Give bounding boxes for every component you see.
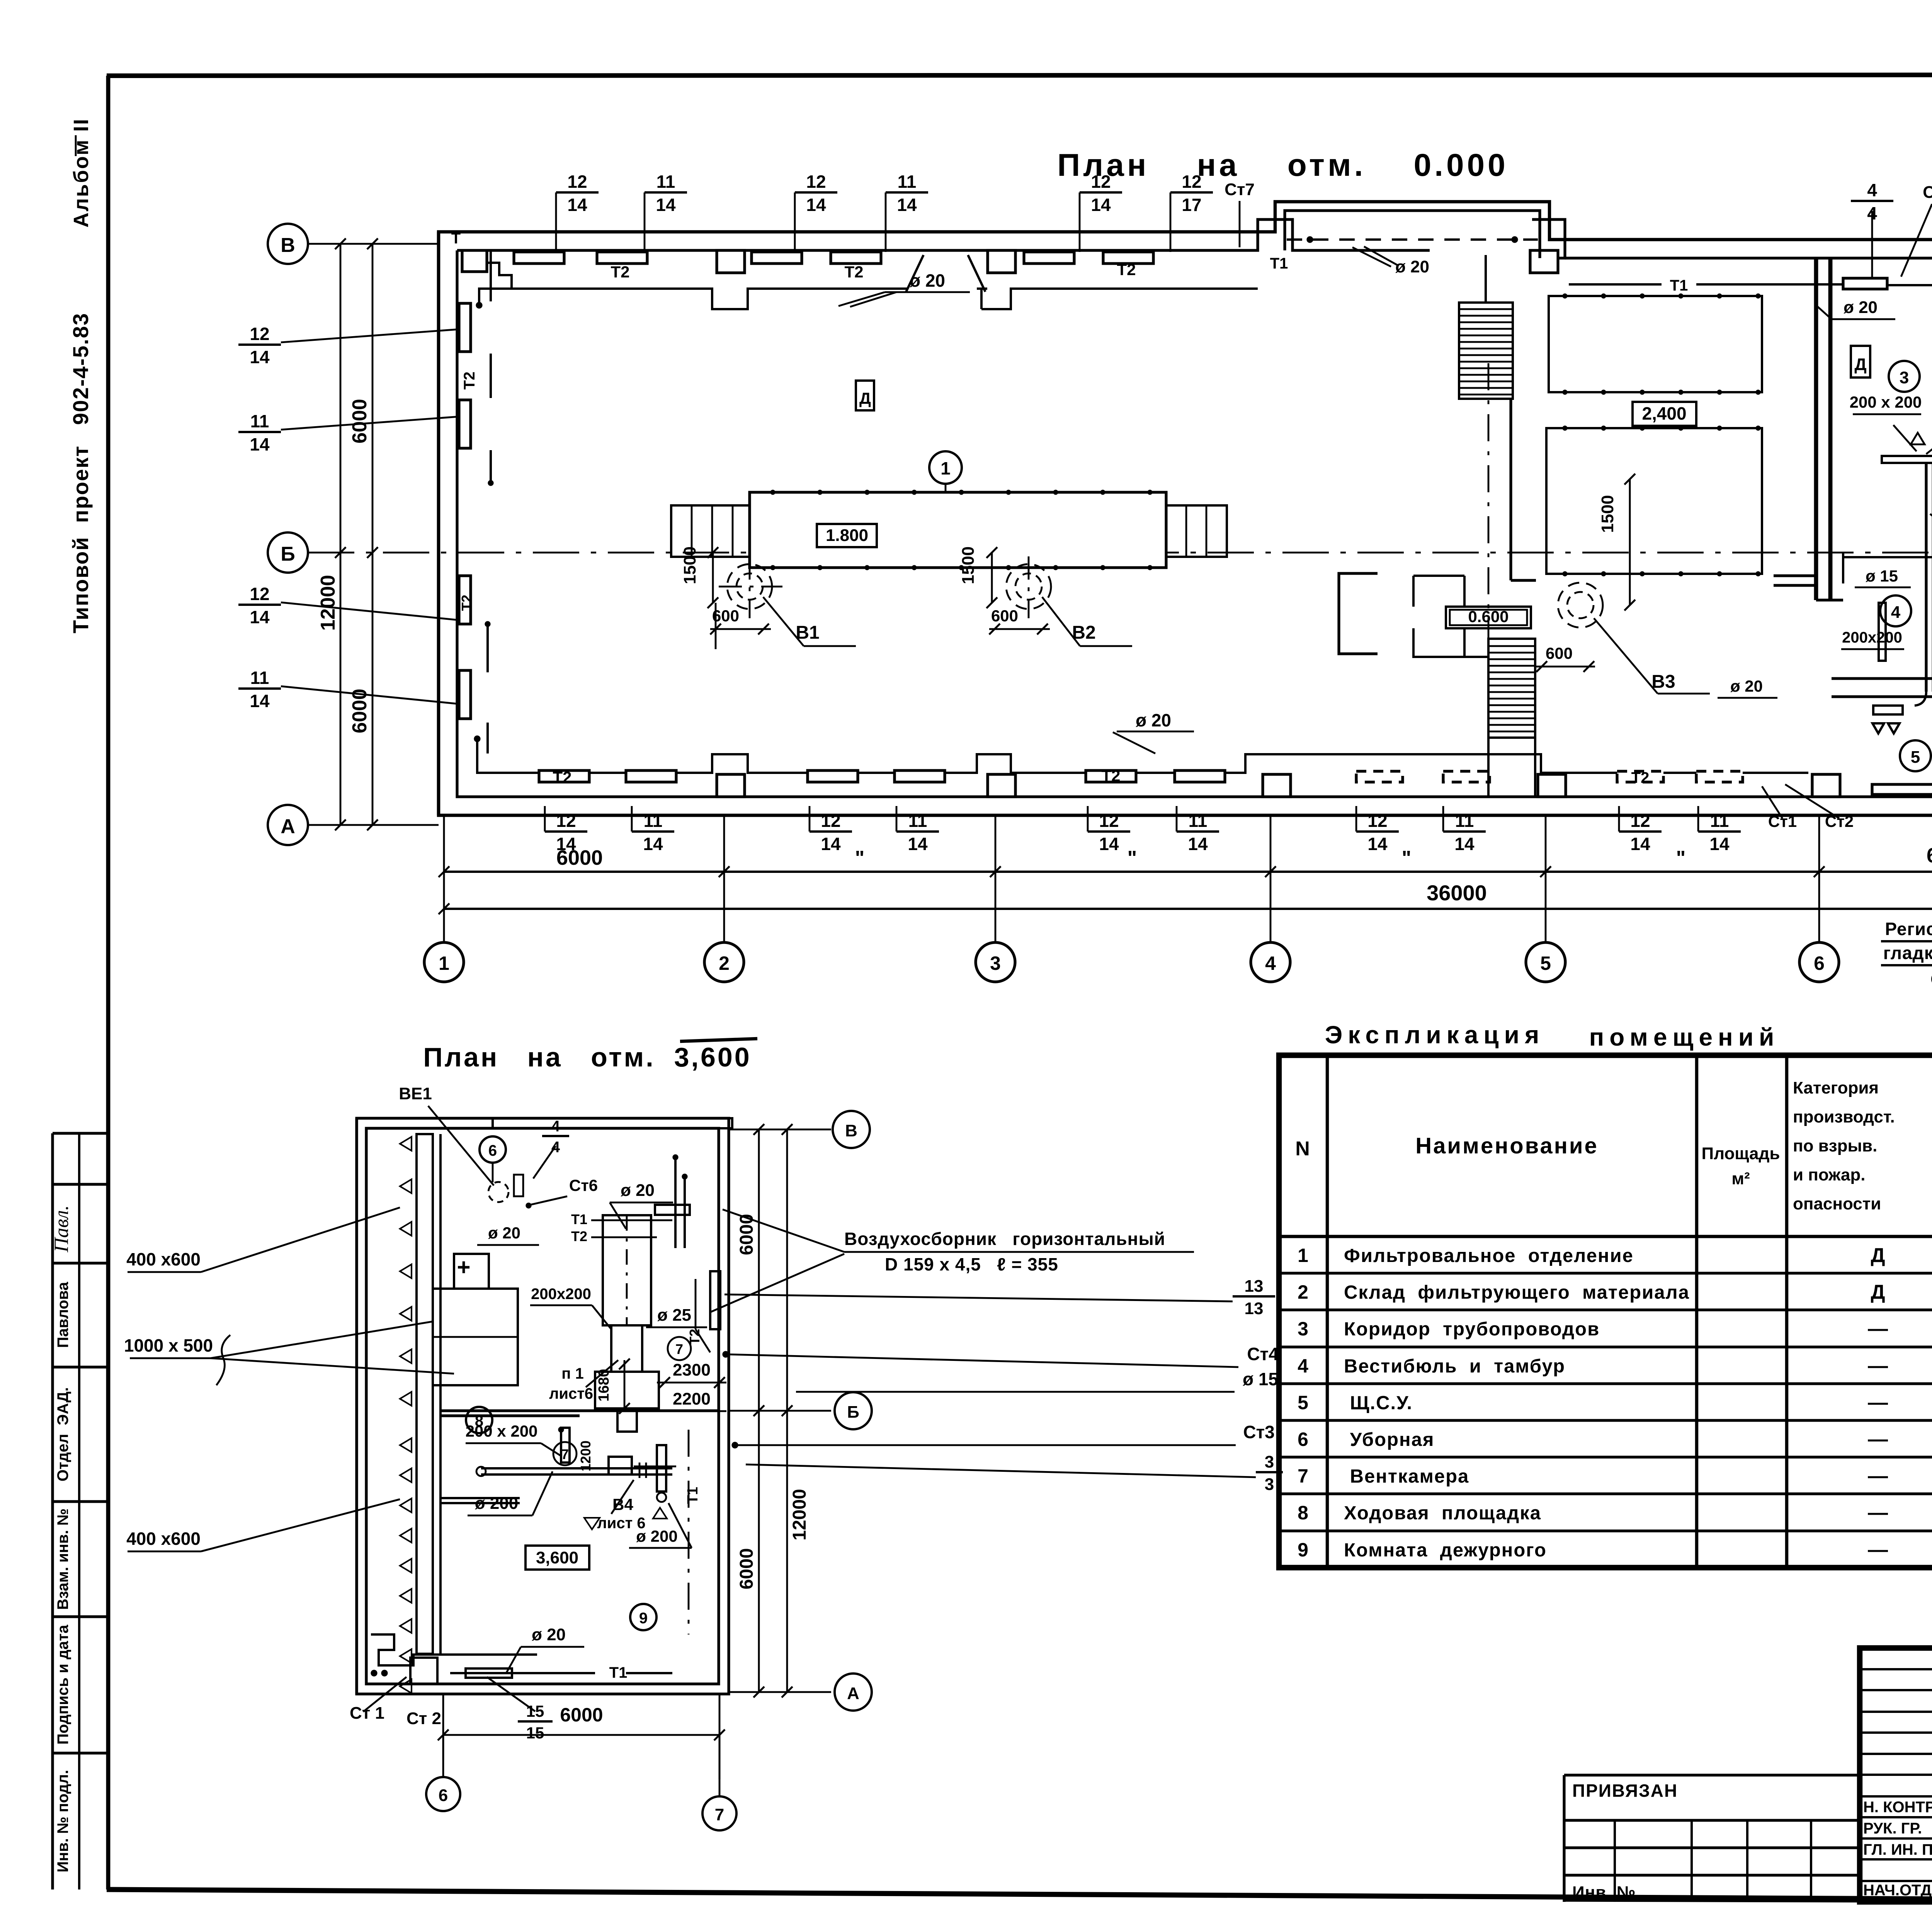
grid leaders right [729,1129,831,1131]
svg-text:—: — [1868,1355,1888,1377]
svg-text:": " [855,847,865,869]
svg-text:11: 11 [1189,811,1207,831]
wall pilasters [717,250,745,273]
svg-text:Подпись и дата: Подпись и дата [54,1624,71,1745]
svg-text:N: N [1295,1138,1311,1160]
svg-text:14: 14 [1709,834,1730,854]
dimension line 36000 [444,908,1932,910]
svg-text:Категория: Категория [1793,1078,1879,1097]
svg-text:Т2: Т2 [459,595,474,611]
svg-text:ГЛ. ИН. ПР.: ГЛ. ИН. ПР. [1863,1841,1932,1858]
svg-text:по взрыв.: по взрыв. [1793,1136,1877,1155]
corridor wall vertical [1509,399,1512,580]
svg-text:6000: 6000 [736,1548,757,1590]
circled 8 and duct [466,1407,492,1433]
svg-text:В: В [845,1121,857,1140]
duct pipes x4990 [1925,463,1927,692]
radiator top small plan [655,1205,690,1215]
corner niche [462,250,487,272]
svg-text:3: 3 [1298,1318,1308,1340]
svg-text:12: 12 [1630,811,1650,831]
svg-text:6000: 6000 [556,846,603,869]
svg-text:3: 3 [990,952,1001,974]
svg-text:лист6: лист6 [549,1385,593,1402]
svg-text:Ст2: Ст2 [1825,812,1854,830]
svg-text:п 1: п 1 [561,1365,584,1382]
svg-text:11: 11 [644,811,663,831]
grid circles B,Bmid,A small plan [833,1111,870,1148]
svg-text:200 х 200: 200 х 200 [466,1422,538,1440]
svg-text:Б: Б [281,543,295,565]
label 1.800 [817,524,877,547]
label 2.400 [1633,402,1696,426]
svg-text:ø 20: ø 20 [1844,298,1878,317]
svg-text:Т1: Т1 [571,1211,587,1227]
svg-text:Т1: Т1 [1270,255,1288,272]
svg-text:Т1: Т1 [1670,277,1688,294]
svg-text:13: 13 [1245,1277,1264,1296]
svg-text:5: 5 [1911,748,1920,767]
svg-text:200х200: 200х200 [531,1286,591,1303]
svg-text:—: — [1868,1465,1888,1487]
svg-text:2: 2 [719,952,730,974]
svg-text:13: 13 [1245,1299,1264,1318]
svg-text:Т2: Т2 [1101,767,1120,785]
svg-text:12: 12 [1099,811,1119,831]
vertical dimension lines left [340,244,342,825]
svg-text:200 х 200: 200 х 200 [1850,393,1922,411]
svg-text:Т2: Т2 [611,263,629,281]
left duct shaft [417,1134,433,1654]
top bay walls [1275,202,1549,232]
svg-text:производст.: производст. [1793,1107,1895,1126]
svg-text:Типовой проект 902-4-5.83: Типовой проект 902-4-5.83 [68,313,93,633]
grid line B(mid) row [308,552,1932,554]
svg-text:6000: 6000 [560,1704,603,1726]
svg-text:7: 7 [1298,1465,1308,1487]
exterior walls inner line [457,219,1430,250]
svg-text:и пожар.: и пожар. [1793,1165,1865,1184]
heating pipe T1 right top [1569,284,1932,285]
svg-text:9: 9 [639,1610,648,1627]
centerline through stair [1488,363,1490,641]
svg-text:": " [1128,847,1137,869]
circled 7 lower [553,1442,577,1465]
svg-text:6000: 6000 [1927,844,1932,867]
vent pipe vertical [1879,603,1886,661]
radiators top [514,252,564,264]
grid circle B [268,224,308,264]
svg-text:ВЕ1: ВЕ1 [399,1084,432,1103]
svg-text:ø 20: ø 20 [1136,710,1171,730]
column circles 1-7 [424,942,464,982]
top interior: VE1 etc [488,1182,509,1202]
T2 pipe room4 [1843,553,1932,583]
svg-text:В4: В4 [612,1495,633,1514]
svg-text:4: 4 [1265,952,1276,974]
svg-text:В3: В3 [1651,672,1675,692]
table frame [1279,1055,1932,1568]
svg-text:14: 14 [897,195,917,215]
svg-text:Фильтровальное отделение: Фильтровальное отделение [1344,1245,1634,1266]
svg-text:14: 14 [1188,834,1208,854]
svg-text:12: 12 [806,172,826,192]
svg-text:12: 12 [567,172,587,192]
svg-text:ø 20: ø 20 [1395,257,1429,276]
svg-text:Наименование: Наименование [1415,1133,1599,1158]
svg-text:м²: м² [1731,1169,1750,1188]
svg-text:Т2: Т2 [571,1228,587,1244]
svg-text:Инв. №: Инв. № [1572,1883,1636,1902]
grid circle A [268,805,308,845]
svg-text:ø 20: ø 20 [621,1181,655,1200]
horizontal pipe 200 [481,1468,672,1475]
svg-text:6: 6 [488,1142,497,1159]
svg-text:Ст 2: Ст 2 [406,1709,441,1728]
svg-text:2300: 2300 [673,1361,711,1379]
svg-text:12: 12 [250,584,269,604]
svg-text:14: 14 [908,834,928,854]
svg-text:Ст4: Ст4 [1247,1344,1279,1364]
svg-text:4: 4 [1891,603,1901,622]
svg-text:12: 12 [1091,172,1111,192]
svg-text:А: А [847,1684,859,1703]
bottom-left corner pipes small plan [371,1634,537,1665]
svg-text:Инв. № подл.: Инв. № подл. [54,1770,71,1872]
svg-text:Взам. инв. №: Взам. инв. № [54,1509,71,1610]
svg-text:12: 12 [1182,172,1201,192]
svg-text:200х200: 200х200 [1842,629,1902,646]
svg-text:Павл.: Павл. [51,1205,73,1253]
svg-text:12000: 12000 [789,1489,810,1540]
heating pipe T2 top [479,289,1258,309]
room5 low duct [1872,784,1932,794]
exterior walls outline [439,202,1932,815]
svg-text:12: 12 [556,811,576,831]
duct elbow [1882,456,1932,463]
svg-text:А: А [281,815,295,838]
svg-text:11: 11 [1455,811,1474,831]
svg-text:400 х600: 400 х600 [126,1529,201,1549]
svg-text:—: — [1868,1318,1888,1340]
svg-text:Венткамера: Венткамера [1344,1466,1469,1487]
svg-text:1: 1 [940,458,951,478]
right risers small plan top [674,1155,677,1248]
central duct assembly [603,1215,651,1325]
svg-text:Т2: Т2 [461,372,478,390]
svg-text:ø 20: ø 20 [1730,677,1763,695]
svg-text:1500: 1500 [959,546,978,584]
svg-text:Ст6: Ст6 [569,1176,598,1194]
insulation triangles left wall [400,1137,412,1151]
vertical dims right of small plan [758,1129,760,1692]
svg-text:14: 14 [643,834,663,854]
svg-text:Т2: Т2 [1117,260,1136,279]
svg-text:3: 3 [1265,1475,1274,1494]
svg-text:ø 20: ø 20 [910,270,945,291]
svg-text:6000: 6000 [349,399,371,444]
small triangles duct marks [1911,433,1932,457]
equipment rect lower [1546,428,1762,574]
equipment filter 1 [750,492,1166,568]
stair side rails [1412,576,1415,607]
svg-text:7: 7 [561,1446,569,1462]
svg-text:7: 7 [715,1805,724,1824]
fraction labels right top [1851,180,1893,223]
svg-text:4: 4 [1867,180,1877,200]
svg-text:1000 х 500: 1000 х 500 [124,1335,213,1355]
circled 9 room [630,1604,656,1630]
room circled numbers [1889,361,1920,392]
svg-text:14: 14 [656,195,676,215]
dimension line 6000s [444,871,1932,873]
svg-text:11: 11 [898,172,917,192]
svg-text:ø 200: ø 200 [475,1494,519,1513]
svg-text:2,400: 2,400 [1642,403,1686,423]
label 0.600 [1446,607,1531,628]
svg-text:11: 11 [250,668,269,688]
svg-text:14: 14 [806,195,826,215]
svg-text:Склад фильтрующего материала: Склад фильтрующего материала [1344,1282,1690,1303]
svg-text:Коридор трубопроводов: Коридор трубопроводов [1344,1319,1600,1340]
svg-text:Альбом II: Альбом II [70,118,93,228]
column leader lines [443,815,445,943]
lower stair [1488,639,1535,738]
wall stub left of stair [1339,573,1378,654]
fraction labels top row [556,172,599,215]
svg-text:": " [1402,847,1412,869]
svg-text:Ходовая площадка: Ходовая площадка [1344,1503,1541,1524]
grid circle Bmid [268,532,308,573]
svg-text:14: 14 [250,347,270,367]
svg-text:РУК. ГР.: РУК. ГР. [1863,1820,1922,1837]
svg-text:7: 7 [675,1341,683,1357]
svg-text:Щ.С.У.: Щ.С.У. [1344,1393,1413,1413]
filter ladders [671,505,750,557]
equipment rect upper [1549,296,1762,392]
svg-text:Регистр из 5 рядов: Регистр из 5 рядов [1885,919,1932,939]
top wall door swings [906,255,985,292]
svg-text:Комната дежурного: Комната дежурного [1344,1540,1547,1561]
bottom plan outer walls [357,1118,729,1694]
svg-text:1500: 1500 [1598,495,1617,533]
svg-text:14: 14 [567,195,587,215]
svg-text:Д: Д [859,389,871,407]
3.600 label [526,1546,589,1570]
svg-text:Вестибюль и тамбур: Вестибюль и тамбур [1344,1356,1565,1377]
svg-text:14: 14 [1630,834,1650,854]
svg-text:6: 6 [1298,1429,1308,1450]
heating pipe T2 left [490,250,492,483]
partition wall x4718 [1814,258,1818,600]
vent chamber unit [433,1289,518,1385]
svg-text:1680: 1680 [596,1369,612,1402]
svg-text:D 159 х 4,5 ℓ = 355: D 159 х 4,5 ℓ = 355 [885,1254,1058,1274]
eductor B3 [1558,583,1603,628]
svg-text:5: 5 [1540,952,1551,974]
svg-text:Павлова: Павлова [54,1282,71,1348]
eductor B1 [727,564,772,609]
bottom plan top wall detail [355,1118,358,1694]
svg-text:15: 15 [526,1724,544,1742]
svg-text:Ст6: Ст6 [1923,183,1932,202]
svg-text:гладких труб ℓ=10м: гладких труб ℓ=10м [1883,943,1932,963]
svg-text:": " [1676,847,1686,869]
svg-text:помещений: помещений [1589,1023,1780,1051]
svg-text:14: 14 [1454,834,1475,854]
svg-text:—: — [1868,1539,1888,1561]
svg-text:Д: Д [1871,1244,1885,1267]
svg-text:Т1: Т1 [685,1487,701,1504]
svg-text:1500: 1500 [680,546,699,584]
svg-text:В: В [281,234,295,257]
svg-text:400 х600: 400 х600 [126,1249,201,1269]
svg-text:План на отм. 3,600: План на отм. 3,600 [423,1042,752,1072]
fraction labels bottom row [545,811,587,854]
svg-text:ø 20: ø 20 [488,1224,520,1242]
svg-text:14: 14 [821,834,841,854]
svg-text:Ст7: Ст7 [1225,180,1255,199]
svg-text:Д: Д [1854,355,1866,374]
svg-text:—: — [1868,1502,1888,1524]
svg-text:11: 11 [250,411,269,431]
svg-text:Т2: Т2 [1631,769,1650,786]
svg-text:2: 2 [1298,1281,1308,1303]
grid line A row [308,824,439,826]
svg-text:—: — [1868,1391,1888,1414]
svg-text:1: 1 [1298,1245,1308,1266]
svg-text:4: 4 [551,1118,560,1135]
svg-text:ПРИВЯЗАН: ПРИВЯЗАН [1572,1781,1678,1801]
dashed pipe in bay [1287,238,1538,241]
svg-text:6: 6 [439,1786,448,1805]
svg-text:НАЧ.ОТД.: НАЧ.ОТД. [1863,1882,1932,1899]
svg-text:+: + [457,1254,470,1280]
svg-text:12: 12 [250,324,269,344]
margin stamp boxes [53,1132,108,1134]
svg-text:Б: Б [847,1403,859,1422]
svg-text:2200: 2200 [673,1389,711,1408]
radiators left wall [459,303,471,352]
eductor B2 [1006,564,1051,609]
svg-text:—: — [1868,1428,1888,1451]
radiators bottom [539,770,589,782]
svg-text:Т: Т [451,230,461,247]
svg-text:1: 1 [439,952,449,974]
svg-text:600: 600 [1546,644,1573,662]
svg-text:17: 17 [1182,195,1201,215]
svg-text:Т1: Т1 [609,1664,628,1681]
svg-text:12: 12 [821,811,840,831]
svg-text:Ст1: Ст1 [1768,812,1797,830]
svg-text:ø 20: ø 20 [532,1625,566,1644]
svg-text:600: 600 [991,607,1018,625]
svg-text:14: 14 [250,607,270,627]
svg-text:Д: Д [1871,1281,1885,1303]
svg-text:12: 12 [1367,811,1387,831]
fraction labels left wall [238,324,281,367]
svg-text:Уборная: Уборная [1344,1429,1434,1450]
svg-text:План на отм. 0.000: План на отм. 0.000 [1057,148,1509,183]
svg-text:14: 14 [1091,195,1111,215]
svg-text:1.800: 1.800 [826,526,868,545]
svg-text:ø 15: ø 15 [1243,1369,1278,1389]
svg-text:Ст3: Ст3 [1243,1422,1274,1442]
svg-text:Н. КОНТР.: Н. КОНТР. [1863,1799,1932,1816]
squiggle mark [216,1335,230,1385]
svg-text:ø 15: ø 15 [1866,567,1898,585]
svg-text:9: 9 [1298,1539,1308,1561]
svg-text:14: 14 [250,691,270,711]
circled 1 pointer [929,451,962,484]
svg-text:d 108 х 2,8: d 108 х 2,8 [1930,968,1932,988]
privyazan sub table [1564,1775,1860,1875]
svg-text:11: 11 [1710,811,1729,831]
svg-text:4: 4 [1298,1355,1308,1377]
svg-text:Отдел ЭАД.: Отдел ЭАД. [54,1387,71,1481]
stairwell upper [1459,303,1513,399]
grid line B row [308,243,439,245]
svg-text:12000: 12000 [317,575,339,631]
svg-text:14: 14 [250,434,270,454]
svg-text:3: 3 [1900,368,1909,387]
dims bottom small plan [443,1734,719,1736]
inner partitions small plan [440,1409,719,1412]
svg-text:5: 5 [1298,1392,1308,1413]
sheet frame [107,75,1932,76]
svg-text:ø 200: ø 200 [636,1527,677,1545]
svg-text:Воздухосборник горизонтальны: Воздухосборник горизонтальный [844,1229,1165,1249]
svg-text:Площадь: Площадь [1702,1144,1780,1163]
D box labels [856,381,874,410]
svg-text:11: 11 [908,811,927,831]
partition room5 top wall [1832,677,1932,680]
title block outer [1860,1648,1932,1902]
svg-text:8: 8 [1298,1502,1308,1524]
svg-text:Экспликация: Экспликация [1325,1021,1545,1049]
heating pipe T2 bottom [477,739,1808,773]
svg-text:3,600: 3,600 [536,1548,578,1567]
column circles 6,7 small plan [426,1777,460,1811]
svg-text:3: 3 [1265,1452,1274,1471]
svg-text:Т2: Т2 [553,768,571,786]
svg-text:14: 14 [1099,834,1119,854]
svg-text:36000: 36000 [1427,881,1487,905]
svg-text:Т2: Т2 [844,263,863,281]
svg-text:ø 25: ø 25 [657,1306,691,1325]
svg-text:6: 6 [1814,952,1825,974]
svg-text:14: 14 [1367,834,1388,854]
svg-text:Ст 1: Ст 1 [350,1704,384,1723]
svg-text:1200: 1200 [578,1440,594,1471]
svg-text:11: 11 [656,172,675,192]
svg-text:опасности: опасности [1793,1194,1881,1213]
